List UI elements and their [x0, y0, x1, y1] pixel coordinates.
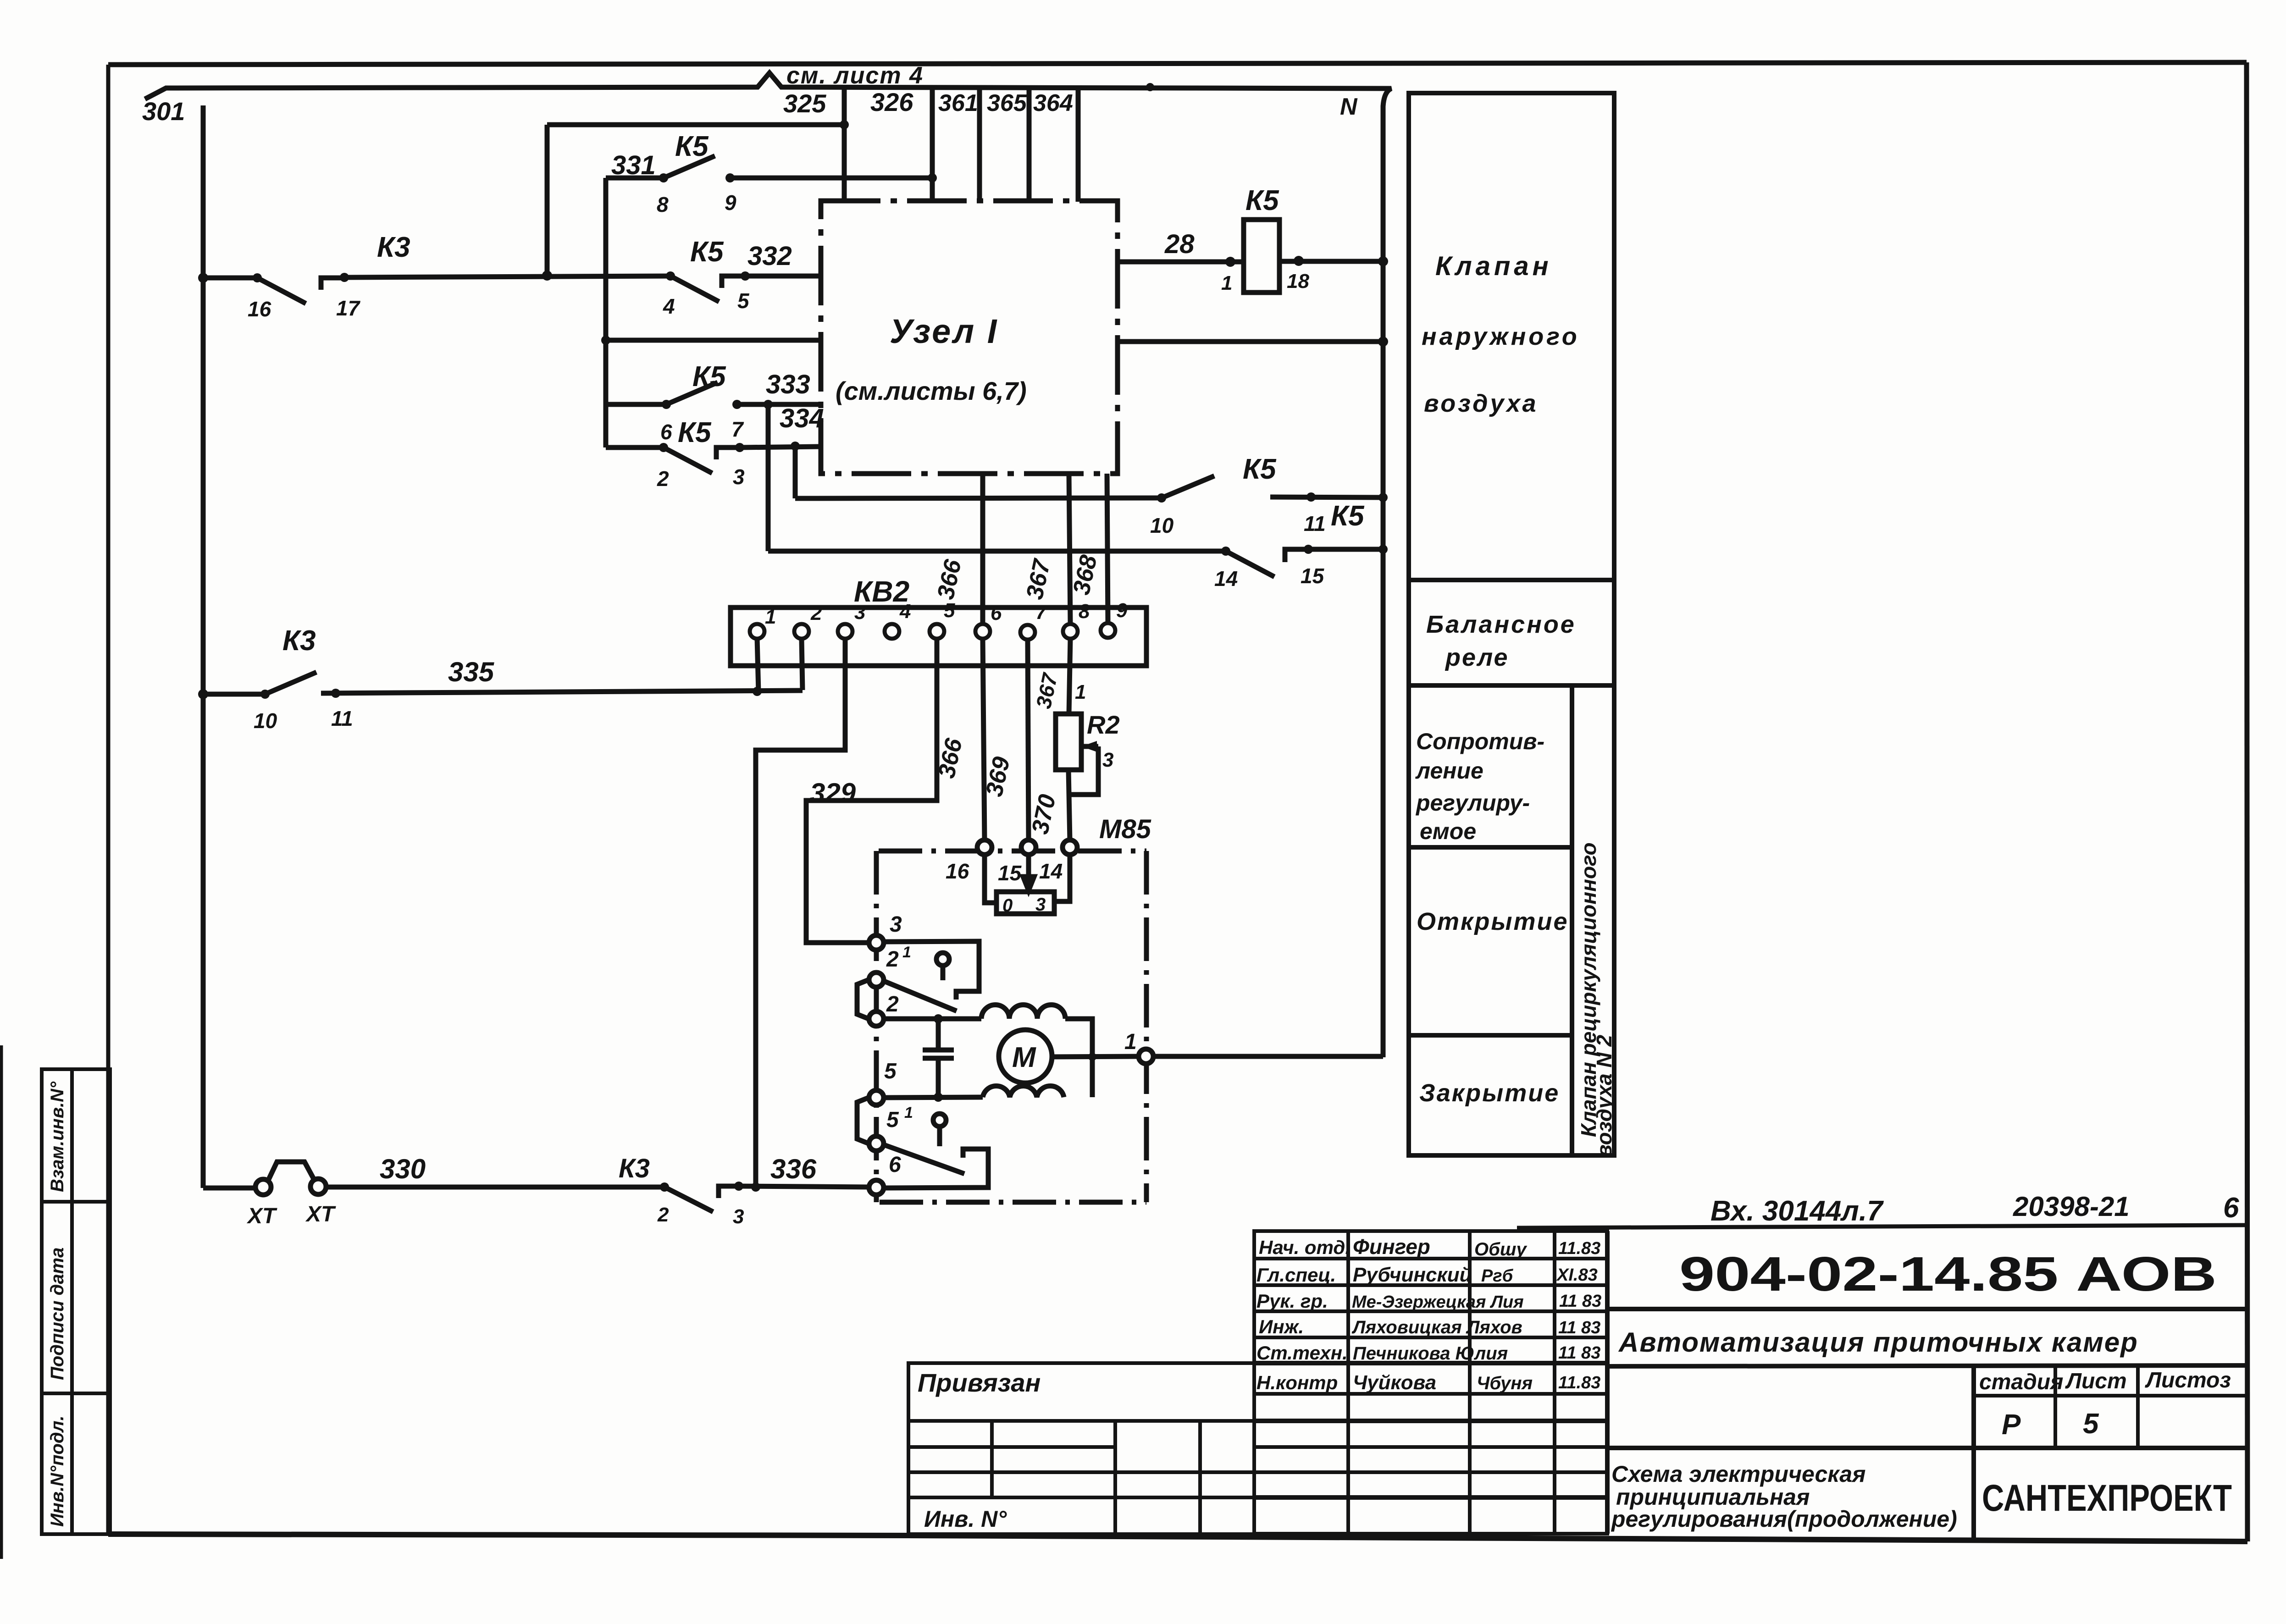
svg-text:11 83: 11 83 — [1558, 1343, 1600, 1363]
svg-text:регулирования(продолжение): регулирования(продолжение) — [1611, 1506, 1957, 1532]
svg-text:10: 10 — [254, 709, 277, 733]
svg-text:2: 2 — [657, 1204, 669, 1226]
svg-text:20398-21: 20398-21 — [2013, 1191, 2130, 1222]
svg-text:11.83: 11.83 — [1558, 1239, 1600, 1258]
svg-text:Чбуня: Чбуня — [1477, 1373, 1533, 1393]
svg-text:см. лист 4: см. лист 4 — [786, 62, 924, 89]
svg-text:1: 1 — [765, 606, 776, 628]
svg-text:М85: М85 — [1099, 814, 1151, 844]
svg-text:Привязан: Привязан — [918, 1368, 1041, 1397]
svg-text:Инв.N°подл.: Инв.N°подл. — [47, 1415, 67, 1527]
svg-text:N: N — [1340, 94, 1358, 120]
svg-text:8: 8 — [657, 193, 669, 216]
svg-text:Подписи дата: Подписи дата — [47, 1248, 67, 1380]
svg-text:325: 325 — [783, 89, 826, 118]
svg-text:11 83: 11 83 — [1559, 1292, 1601, 1311]
svg-text:К3: К3 — [619, 1154, 650, 1183]
svg-text:воздуха: воздуха — [1424, 390, 1539, 417]
svg-text:К5: К5 — [1245, 185, 1279, 216]
svg-text:Схема электрическая: Схема электрическая — [1611, 1461, 1865, 1487]
svg-text:2: 2 — [810, 602, 822, 624]
svg-text:15: 15 — [998, 861, 1022, 885]
svg-text:XI.83: XI.83 — [1556, 1265, 1598, 1285]
svg-text:16: 16 — [248, 297, 271, 321]
svg-text:2: 2 — [886, 992, 899, 1016]
svg-text:366: 366 — [932, 557, 967, 602]
svg-text:Узел I: Узел I — [890, 312, 998, 350]
svg-text:3: 3 — [890, 912, 902, 937]
svg-text:Печникова Юлия: Печникова Юлия — [1353, 1343, 1508, 1364]
svg-text:R2: R2 — [1087, 710, 1120, 739]
svg-text:336: 336 — [770, 1154, 817, 1184]
svg-text:емое: емое — [1420, 818, 1476, 844]
svg-text:8: 8 — [1079, 600, 1090, 623]
svg-text:15: 15 — [1301, 564, 1325, 588]
svg-text:301: 301 — [142, 97, 185, 126]
svg-text:Фингер: Фингер — [1353, 1235, 1430, 1259]
svg-text:Сопротив-: Сопротив- — [1416, 729, 1544, 754]
svg-text:364: 364 — [1033, 90, 1073, 116]
svg-text:К5: К5 — [692, 361, 726, 392]
svg-text:М: М — [1012, 1042, 1036, 1073]
svg-text:Обшу: Обшу — [1474, 1239, 1527, 1259]
svg-text:3: 3 — [854, 601, 865, 624]
svg-text:335: 335 — [448, 657, 495, 687]
svg-text:регулиру-: регулиру- — [1415, 790, 1530, 816]
svg-text:18: 18 — [1287, 270, 1309, 293]
svg-text:365: 365 — [987, 90, 1027, 116]
svg-text:Взам.инв.N°: Взам.инв.N° — [47, 1081, 67, 1192]
svg-text:Нач. отд.: Нач. отд. — [1259, 1237, 1351, 1258]
svg-text:370: 370 — [1027, 792, 1061, 836]
svg-text:5: 5 — [886, 1108, 899, 1132]
svg-text:Автоматизация приточных камер: Автоматизация приточных камер — [1618, 1327, 2138, 1358]
svg-text:0: 0 — [1002, 895, 1013, 916]
svg-text:ХТ: ХТ — [246, 1204, 277, 1228]
svg-text:Рук. гр.: Рук. гр. — [1256, 1290, 1328, 1312]
svg-text:Инв. N°: Инв. N° — [924, 1506, 1007, 1532]
svg-text:1: 1 — [1124, 1030, 1137, 1054]
svg-text:К5: К5 — [1243, 453, 1277, 485]
svg-text:3: 3 — [733, 1205, 744, 1228]
svg-text:Ст.техн.: Ст.техн. — [1256, 1342, 1348, 1364]
svg-text:К3: К3 — [377, 232, 410, 263]
svg-text:Н.контр: Н.контр — [1256, 1372, 1338, 1393]
svg-text:11 83: 11 83 — [1558, 1318, 1600, 1337]
svg-text:Инж.: Инж. — [1259, 1316, 1304, 1337]
svg-text:17: 17 — [336, 296, 361, 320]
svg-text:Ме-Эзержецкая Лия: Ме-Эзержецкая Лия — [1352, 1293, 1524, 1312]
svg-text:К5: К5 — [690, 236, 724, 268]
svg-text:2: 2 — [886, 947, 899, 972]
svg-text:331: 331 — [611, 150, 656, 180]
svg-text:стадия: стадия — [1979, 1370, 2063, 1394]
svg-text:6: 6 — [889, 1153, 901, 1177]
svg-text:5: 5 — [884, 1059, 897, 1083]
svg-text:332: 332 — [747, 241, 792, 271]
svg-text:Закрытие: Закрытие — [1419, 1079, 1560, 1107]
svg-text:ление: ление — [1415, 758, 1483, 784]
svg-text:Лист: Лист — [2065, 1369, 2127, 1393]
svg-text:361: 361 — [938, 90, 978, 116]
svg-text:К5: К5 — [678, 417, 712, 448]
svg-text:наружного: наружного — [1422, 323, 1580, 350]
svg-text:3: 3 — [1035, 895, 1046, 915]
svg-text:11: 11 — [1304, 512, 1326, 536]
svg-text:904-02-14.85 АОВ: 904-02-14.85 АОВ — [1679, 1247, 2217, 1301]
svg-text:ХТ: ХТ — [305, 1202, 336, 1226]
svg-text:Ляховицкая Ляхов: Ляховицкая Ляхов — [1351, 1317, 1522, 1337]
svg-text:14: 14 — [1214, 567, 1238, 591]
svg-text:16: 16 — [946, 859, 969, 883]
svg-text:Балансное: Балансное — [1426, 611, 1576, 638]
svg-text:7: 7 — [731, 417, 744, 441]
svg-text:6: 6 — [660, 420, 672, 444]
svg-text:6: 6 — [991, 602, 1002, 624]
svg-text:4: 4 — [663, 294, 675, 318]
svg-text:1: 1 — [902, 944, 911, 961]
svg-text:14: 14 — [1039, 859, 1063, 883]
svg-text:333: 333 — [766, 370, 810, 399]
svg-text:5: 5 — [2083, 1408, 2099, 1440]
svg-text:Ргб: Ргб — [1481, 1266, 1514, 1286]
svg-text:1: 1 — [1221, 272, 1232, 294]
svg-text:Открытие: Открытие — [1417, 908, 1569, 935]
svg-text:реле: реле — [1445, 644, 1509, 671]
svg-text:5: 5 — [737, 289, 750, 313]
svg-text:367: 367 — [1021, 557, 1056, 602]
svg-text:3: 3 — [733, 465, 745, 489]
svg-text:Клапан: Клапан — [1435, 251, 1552, 281]
svg-text:1: 1 — [1075, 681, 1086, 703]
svg-text:9: 9 — [725, 191, 736, 215]
svg-text:1: 1 — [904, 1104, 913, 1121]
svg-text:334: 334 — [780, 403, 824, 433]
svg-text:Р: Р — [2002, 1409, 2021, 1441]
svg-text:11: 11 — [331, 707, 353, 730]
svg-text:(см.листы 6,7): (см.листы 6,7) — [836, 376, 1027, 405]
svg-text:2: 2 — [657, 467, 669, 491]
svg-text:11.83: 11.83 — [1558, 1373, 1600, 1392]
svg-text:28: 28 — [1164, 229, 1195, 259]
svg-text:Рубчинский: Рубчинский — [1353, 1264, 1472, 1286]
svg-text:329: 329 — [810, 778, 856, 808]
svg-text:10: 10 — [1150, 514, 1174, 537]
svg-text:9: 9 — [1116, 599, 1128, 622]
svg-text:3: 3 — [1102, 749, 1113, 771]
svg-text:воздуха N 2: воздуха N 2 — [1592, 1034, 1616, 1157]
svg-text:7: 7 — [1035, 601, 1048, 624]
svg-text:К5: К5 — [675, 131, 709, 162]
svg-text:4: 4 — [899, 600, 911, 623]
svg-text:6: 6 — [2223, 1192, 2239, 1224]
svg-text:Вх. 30144л.7: Вх. 30144л.7 — [1710, 1195, 1884, 1227]
svg-text:367: 367 — [1031, 670, 1062, 711]
svg-text:Гл.спец.: Гл.спец. — [1256, 1264, 1336, 1286]
svg-text:5: 5 — [944, 599, 955, 622]
svg-text:368: 368 — [1068, 552, 1102, 597]
svg-text:К5: К5 — [1331, 500, 1365, 532]
svg-text:326: 326 — [870, 88, 913, 116]
svg-text:САНТЕХПРОЕКТ: САНТЕХПРОЕКТ — [1982, 1477, 2232, 1519]
svg-text:К3: К3 — [282, 625, 316, 657]
svg-text:Чуйкова: Чуйкова — [1353, 1371, 1436, 1394]
svg-text:Листоз: Листоз — [2145, 1368, 2231, 1392]
svg-text:330: 330 — [380, 1154, 426, 1184]
